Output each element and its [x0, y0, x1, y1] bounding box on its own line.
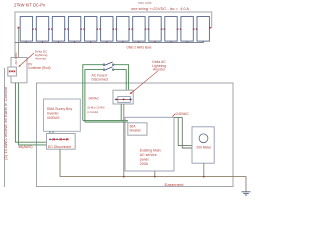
- PV module 4: [68, 17, 80, 43]
- svg-text:240VAC: 240VAC: [88, 96, 99, 100]
- svg-text:max volts: max volts: [138, 1, 152, 5]
- switch symbols: [103, 64, 105, 66]
- svg-text:SMA Sunny Boy: SMA Sunny Boy: [47, 107, 73, 111]
- svg-text:in Conduit: in Conduit: [87, 110, 98, 114]
- wires junction box down: [120, 104, 122, 120]
- string wire to combiner: [18, 28, 20, 58]
- svg-text:Combiner (Roof): Combiner (Roof): [28, 66, 51, 70]
- svg-text:Disconnect: Disconnect: [92, 77, 109, 81]
- panel ground drop: [154, 171, 156, 177]
- wires panel to meter: [174, 117, 192, 148]
- 240VAC meter label + tick: [173, 114, 176, 117]
- svg-text:AC service: AC service: [140, 153, 157, 157]
- arrow to junction box: [130, 71, 158, 94]
- DC wires combiner to DC disconnect: [15, 83, 46, 145]
- DC disconnect box: [47, 134, 76, 150]
- ground rod symbol: [242, 192, 251, 195]
- svg-text:240VAC: 240VAC: [176, 112, 189, 116]
- arrow to fuse box: [19, 53, 34, 66]
- svg-text:Inverter: Inverter: [47, 112, 60, 116]
- svg-text:(2) 10 AWG w/ONE #6 Earth in C: (2) 10 AWG w/ONE #6 Earth in Conduit: [4, 87, 8, 160]
- svg-text:panel: panel: [140, 158, 149, 162]
- svg-text:Easement: Easement: [165, 183, 184, 187]
- PV module 6: [101, 17, 113, 43]
- svg-text:4000US: 4000US: [47, 116, 60, 120]
- PV module 1: [20, 17, 32, 43]
- meter ground drop: [203, 163, 205, 176]
- PV module 8: [133, 17, 145, 43]
- 60A breaker box: [128, 123, 147, 135]
- svg-text:Arrestor: Arrestor: [35, 57, 46, 61]
- string input arrow: [18, 27, 21, 30]
- svg-text:#10 AWG: #10 AWG: [14, 53, 18, 65]
- AC junction box: [113, 90, 133, 104]
- svg-text:one string +=21VDC - Isc = 4.: one string +=21VDC - Isc = 4.0 A: [131, 7, 190, 11]
- ground bus: [59, 149, 61, 176]
- junction dots: [123, 176, 125, 178]
- PV module 12: [197, 17, 209, 43]
- svg-text:200A: 200A: [140, 162, 149, 166]
- PV module 9: [149, 17, 161, 43]
- svg-text:ONE-2 AWG Bare: ONE-2 AWG Bare: [127, 45, 152, 49]
- building box: [37, 83, 234, 187]
- utility meter box: [192, 127, 214, 163]
- roof border: [15, 12, 212, 58]
- DC arrestor fuse box: [8, 67, 17, 76]
- svg-text:breaker: breaker: [130, 129, 142, 133]
- PV module 10: [165, 17, 177, 43]
- svg-text:#6(AWG): #6(AWG): [19, 145, 33, 149]
- svg-text:200 Meter: 200 Meter: [196, 146, 212, 150]
- inverter to DC disconnect stubs: [49, 131, 51, 133]
- PV module 2: [36, 17, 48, 43]
- svg-text:(3) #8 or 12 AWG: (3) #8 or 12 AWG: [87, 105, 105, 109]
- property line: [4, 68, 6, 187]
- string output arrow: [209, 27, 211, 30]
- PV module 7: [117, 17, 129, 43]
- svg-text:Existing Main: Existing Main: [140, 149, 161, 153]
- PV array bus: [15, 41, 203, 43]
- string connector arrows: [32, 28, 198, 30]
- PV module 5: [85, 17, 97, 43]
- main service panel: [125, 117, 174, 171]
- PV module 11: [181, 17, 193, 43]
- svg-text:Arrestor: Arrestor: [153, 68, 166, 72]
- svg-text:DC Disconnect: DC Disconnect: [48, 145, 71, 149]
- PV combiner box: [11, 58, 27, 83]
- svg-text:27kW KIT DC-Pv: 27kW KIT DC-Pv: [14, 2, 46, 7]
- AC wires with fused disconnect: [83, 65, 129, 122]
- PV module 3: [52, 17, 64, 43]
- SMA inverter box: [44, 99, 81, 131]
